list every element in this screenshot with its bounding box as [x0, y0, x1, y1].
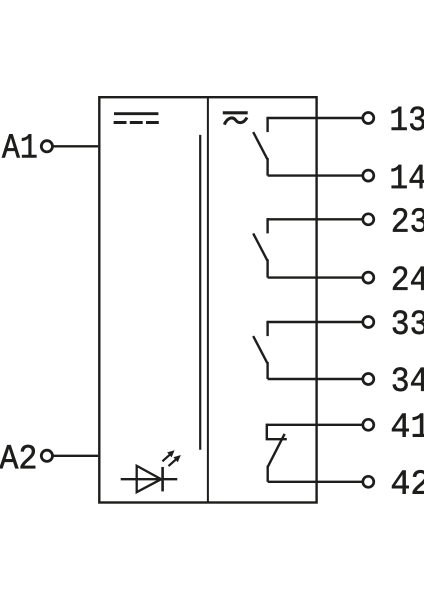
- terminal 33 circle: [363, 317, 374, 328]
- contact 33-34 fixed hook: [266, 321, 268, 336]
- terminal 41 circle: [363, 419, 374, 430]
- terminal 34 circle: [363, 374, 374, 385]
- wire 13: [268, 117, 363, 119]
- terminal 13 circle: [363, 113, 374, 124]
- terminal 23 circle: [363, 214, 374, 225]
- label 34: [393, 367, 424, 391]
- contact 33-34 lower lead: [266, 362, 268, 379]
- contact 23-24 lower lead: [266, 259, 268, 277]
- terminal 24 circle: [363, 272, 374, 283]
- wire A2 to body: [53, 455, 98, 457]
- DC supply symbol dashed bar: [114, 121, 159, 124]
- label 14: [392, 165, 424, 188]
- terminal 42 circle: [363, 476, 374, 487]
- contact 23-24 fixed hook: [266, 218, 268, 233]
- wire 34: [268, 378, 363, 380]
- label 41: [392, 414, 424, 437]
- LED triangle: [137, 466, 162, 492]
- AC/DC symbol tilde: [224, 118, 247, 125]
- terminal A2 circle: [41, 450, 52, 461]
- wire A1 to body: [53, 145, 98, 147]
- label 23: [393, 208, 424, 232]
- label A1: [2, 134, 37, 157]
- wire 24: [268, 276, 363, 278]
- contact 23-24 blade: [253, 233, 267, 260]
- wire 41: [267, 424, 363, 426]
- wire 23: [268, 218, 363, 220]
- contact 33-34 blade: [253, 336, 267, 363]
- label 42: [392, 470, 424, 494]
- label A2: [0, 445, 35, 469]
- wire 14: [268, 174, 363, 176]
- contact 13-14 lower lead: [266, 158, 268, 176]
- LED cathode bar: [161, 467, 164, 491]
- label 13: [392, 107, 424, 131]
- isolation barrier line: [199, 135, 201, 450]
- terminal A1 circle: [41, 141, 52, 152]
- contact 13-14 fixed hook: [266, 117, 268, 132]
- label 33: [393, 310, 424, 334]
- DC supply symbol solid bar: [114, 112, 158, 115]
- wire 33: [268, 321, 363, 323]
- LED emission arrow 2: [169, 455, 181, 466]
- wire 42: [268, 481, 363, 483]
- AC/DC symbol bar: [223, 111, 248, 114]
- contact 41-42 fixed contact L: [267, 424, 287, 440]
- terminal 14 circle: [363, 170, 374, 181]
- LED emission arrow 1: [162, 450, 174, 461]
- LED indicator anode wire: [121, 478, 178, 480]
- relay body outline: [99, 97, 316, 502]
- input/output divider: [207, 97, 209, 502]
- contact 41-42 blade: [268, 434, 285, 467]
- label 24: [393, 266, 424, 290]
- contact 13-14 blade: [253, 132, 267, 159]
- contact 41-42 lower lead: [267, 466, 269, 482]
